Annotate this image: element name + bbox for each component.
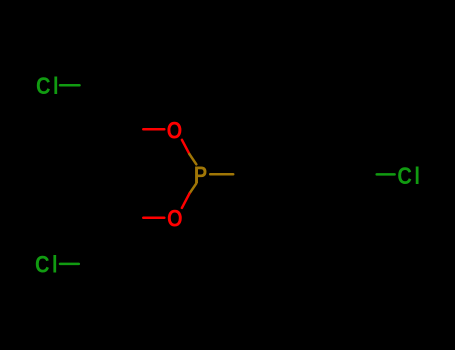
svg-text:Cl: Cl: [397, 162, 422, 189]
svg-text:Cl: Cl: [36, 72, 61, 99]
svg-text:O: O: [167, 204, 185, 231]
svg-text:O: O: [167, 116, 185, 143]
svg-text:Cl: Cl: [35, 251, 60, 278]
svg-text:P: P: [194, 161, 210, 188]
